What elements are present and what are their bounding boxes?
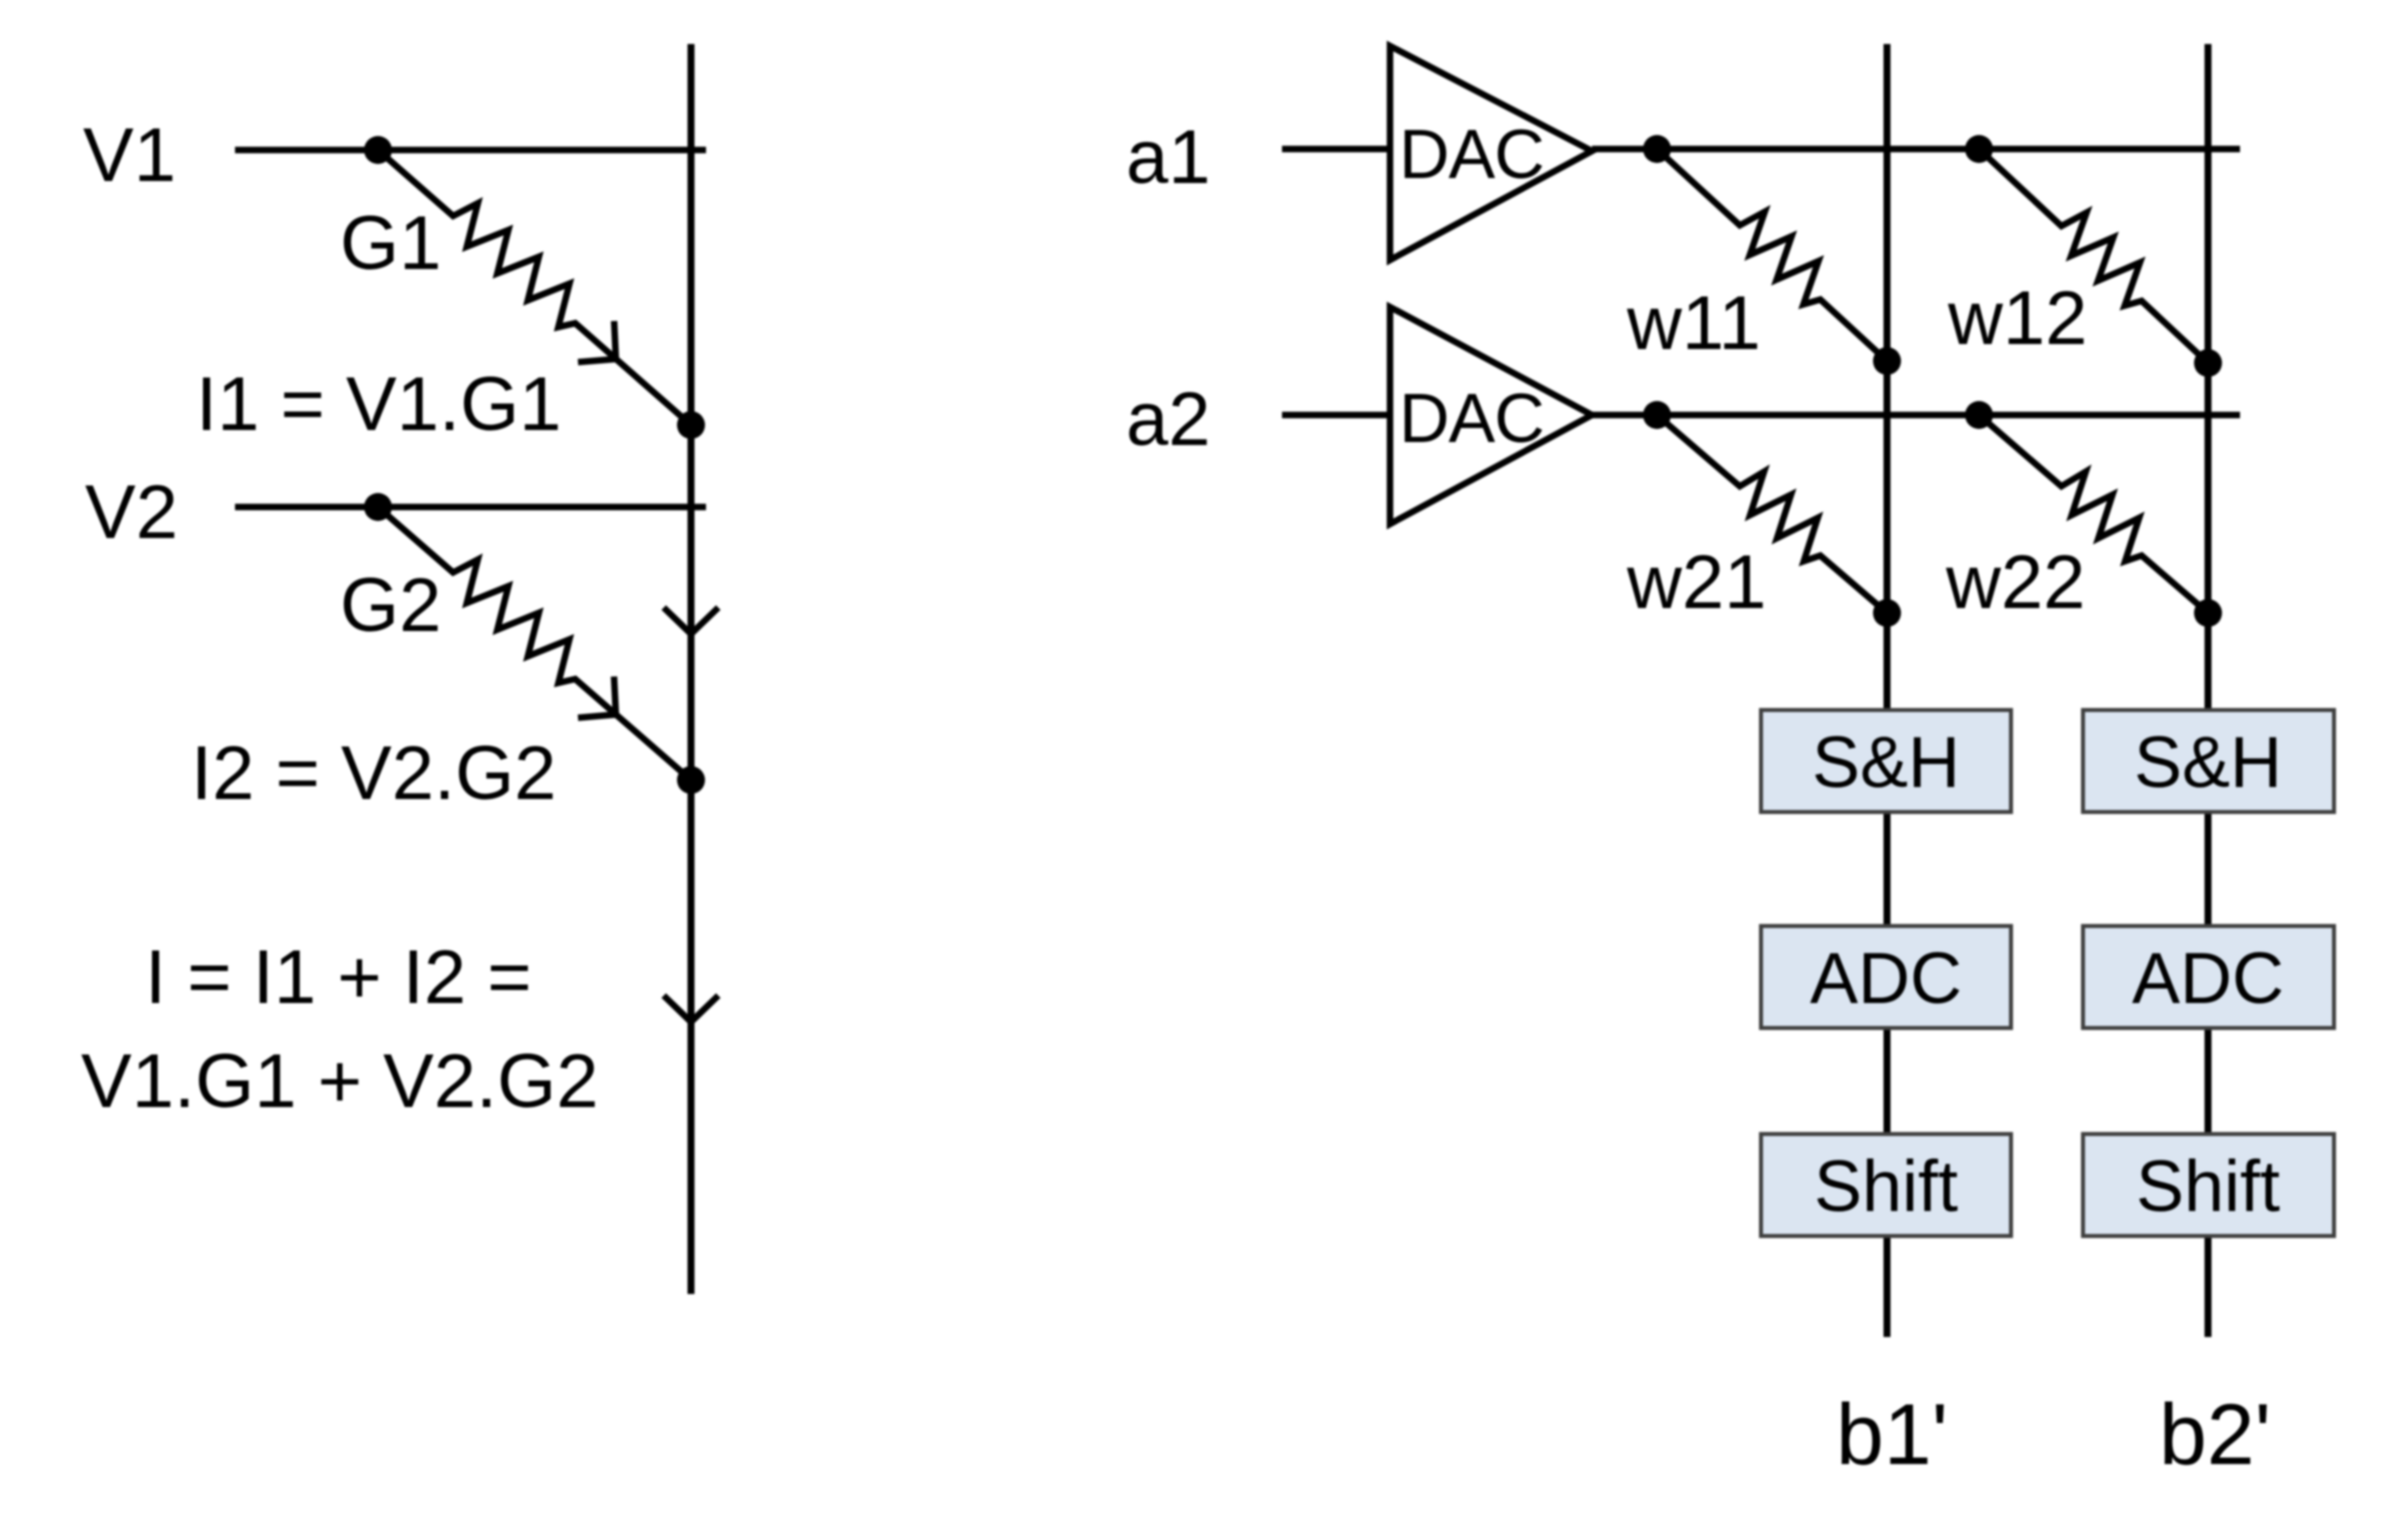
svg-text:w12: w12 <box>1947 276 2087 361</box>
junction dot V1 tap <box>364 136 392 164</box>
svg-text:I = I1 + I2 =: I = I1 + I2 = <box>145 935 532 1020</box>
Shift block column 1 <box>1761 1134 2011 1236</box>
wire a1 row <box>1592 146 2240 153</box>
junction dot w12-col2 <box>2194 349 2222 377</box>
DAC U2 triangle <box>1390 307 1592 524</box>
junction dot I2 <box>677 766 705 794</box>
svg-text:V2: V2 <box>85 470 178 555</box>
current arrow 1 <box>664 608 719 634</box>
svg-text:V1.G1 + V2.G2: V1.G1 + V2.G2 <box>81 1039 599 1124</box>
junction dot a2-w22 <box>1965 401 1993 429</box>
svg-text:V1: V1 <box>83 113 176 198</box>
svg-text:S&H: S&H <box>2134 723 2282 803</box>
junction dot w21-col1 <box>1873 599 1901 627</box>
wire a2 input <box>1282 412 1390 419</box>
svg-text:a1: a1 <box>1126 115 1211 200</box>
svg-text:DAC: DAC <box>1399 115 1544 193</box>
junction dot a1-w12 <box>1965 135 1993 163</box>
Shift block column 2 <box>2083 1134 2334 1236</box>
svg-text:I2 = V2.G2: I2 = V2.G2 <box>191 731 556 816</box>
resistor G2 <box>378 507 691 780</box>
resistor G1 <box>378 150 691 425</box>
svg-text:G2: G2 <box>340 563 441 648</box>
resistor w11 <box>1657 149 1887 361</box>
wire V2 row <box>235 504 706 511</box>
wire summing column (left) <box>688 44 695 1294</box>
current arrow 2 <box>664 996 719 1022</box>
arrow on resistor G1 <box>578 321 616 362</box>
S&H block column 2 <box>2083 710 2334 812</box>
svg-text:DAC: DAC <box>1399 379 1544 457</box>
resistor w22 <box>1979 415 2208 613</box>
wire bitline column 2 <box>2205 44 2212 1337</box>
svg-text:ADC: ADC <box>1810 939 1962 1019</box>
S&H block column 1 <box>1761 710 2011 812</box>
junction dot a2-w21 <box>1643 401 1671 429</box>
junction dot a1-w11 <box>1643 135 1671 163</box>
svg-text:Shift: Shift <box>2136 1147 2280 1227</box>
junction dot w22-col2 <box>2194 599 2222 627</box>
svg-text:I1 = V1.G1: I1 = V1.G1 <box>196 362 561 447</box>
ADC block column 2 <box>2083 926 2334 1028</box>
svg-text:Shift: Shift <box>1814 1147 1958 1227</box>
svg-text:b1': b1' <box>1836 1387 1948 1483</box>
wire bitline column 1 <box>1884 44 1891 1337</box>
wire a1 input <box>1282 146 1390 153</box>
resistor w12 <box>1979 149 2208 363</box>
svg-text:w11: w11 <box>1626 281 1761 366</box>
svg-text:S&H: S&H <box>1812 723 1960 803</box>
DAC U1 triangle <box>1390 46 1592 260</box>
resistor w21 <box>1657 415 1887 613</box>
svg-text:G1: G1 <box>340 201 441 286</box>
arrow on resistor G2 <box>578 677 616 718</box>
svg-text:a2: a2 <box>1126 377 1211 462</box>
svg-text:w21: w21 <box>1626 540 1766 625</box>
svg-text:ADC: ADC <box>2132 939 2284 1019</box>
svg-text:b2': b2' <box>2159 1387 2271 1483</box>
junction dot V2 tap <box>364 493 392 521</box>
ADC block column 1 <box>1761 926 2011 1028</box>
wire a2 row <box>1592 412 2240 419</box>
junction dot w11-col1 <box>1873 347 1901 375</box>
wire V1 row <box>235 147 706 154</box>
junction dot I1 <box>677 411 705 439</box>
svg-text:w22: w22 <box>1945 540 2085 625</box>
